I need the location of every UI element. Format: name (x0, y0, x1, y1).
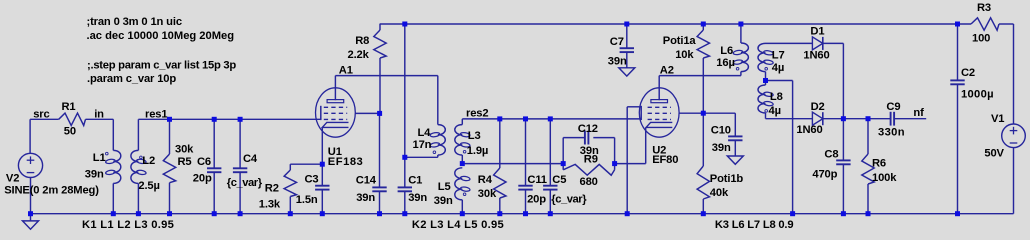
node junction B+ / C7 (624, 22, 629, 27)
wire C11 bottom lead (525, 190, 527, 214)
wire L8 bottom to D2 (765, 113, 767, 119)
wire in down to L1 (112, 119, 114, 150)
wire D1 cathode to corner (823, 42, 844, 44)
svg-text:res1: res1 (145, 109, 167, 121)
wire C4 top lead (239, 119, 241, 168)
node junction res1 C6 (212, 117, 217, 122)
wire V2 ground stub (30, 214, 32, 221)
wire C3 bottom lead (321, 190, 323, 214)
svg-text:R9: R9 (584, 154, 598, 166)
wire U1 g1-g3 bracket (320, 106, 322, 120)
wire C12R9 right vertical (614, 138, 616, 170)
wire C11 top lead (525, 119, 527, 186)
svg-text:Poti1a: Poti1a (663, 35, 697, 47)
wire C7 top lead (626, 24, 628, 48)
svg-text:C1: C1 (408, 174, 422, 186)
svg-text:16µ: 16µ (716, 57, 734, 69)
node bus junction Poti1b (701, 211, 706, 216)
svg-text:L1: L1 (93, 152, 106, 164)
node bus junction C5 (548, 211, 553, 216)
svg-text:L3: L3 (468, 130, 481, 142)
node bus junction C4 (238, 211, 243, 216)
svg-text:C2: C2 (961, 67, 975, 79)
svg-text:A1: A1 (339, 64, 353, 76)
node junction res1 R5 (167, 117, 172, 122)
wire R2 bottom lead (289, 197, 291, 214)
wire R4 top lead (499, 119, 501, 168)
node junction res2 R4 (497, 116, 502, 121)
wire L1 bottom lead (112, 183, 114, 213)
svg-text:nf: nf (913, 107, 924, 119)
resistor R9 (563, 164, 614, 175)
svg-text:L5: L5 (438, 181, 451, 193)
wire R6 bottom lead (867, 184, 869, 214)
inductor L6 (741, 43, 749, 72)
svg-text:C8: C8 (824, 149, 838, 161)
svg-text:.ac dec 10000 10Meg 20Meg: .ac dec 10000 10Meg 20Meg (87, 30, 235, 42)
svg-text:C9: C9 (886, 101, 900, 113)
node junction detector R6 (866, 116, 871, 121)
svg-text:330n: 330n (878, 126, 905, 138)
wire U2 g1-g3 bracket (640, 106, 642, 120)
svg-text:20p: 20p (527, 194, 546, 206)
wire L3 bottom lead (461, 155, 463, 164)
wire A2 plate net (659, 75, 741, 77)
svg-text:C7: C7 (610, 36, 624, 48)
capacitor C11 (518, 185, 532, 187)
wire R5 bottom lead (169, 183, 171, 214)
wire Poti1b bottom lead (702, 199, 704, 214)
wire L7 bottom to tap (765, 72, 767, 81)
resistor Poti1b (697, 166, 709, 199)
svg-text:2.5µ: 2.5µ (138, 180, 159, 192)
wire Poti1a bottom lead (702, 58, 704, 113)
node bus junction C14 (377, 211, 382, 216)
wire C4 bottom lead (239, 172, 241, 214)
capacitor C9 (890, 112, 892, 126)
svg-text:1N60: 1N60 (796, 124, 822, 136)
wire C12R9 left vertical (562, 138, 564, 170)
wire C12 top branch right (593, 137, 614, 139)
wire A1 down to L4 (437, 76, 439, 125)
svg-text:R5: R5 (178, 156, 192, 168)
node bus junction R6 (866, 211, 871, 216)
wire C10 top lead (734, 113, 736, 136)
node junction B+ / C2 (955, 22, 960, 27)
svg-text:10k: 10k (675, 49, 694, 61)
svg-text:Poti1b: Poti1b (710, 173, 744, 185)
svg-text:R2: R2 (265, 182, 279, 194)
resistor Poti1a (697, 30, 709, 58)
svg-text:100k: 100k (872, 172, 897, 184)
node junction L3 L5 cathode tap (460, 161, 465, 166)
svg-text:K1 L1 L2 L3 0.95: K1 L1 L2 L3 0.95 (82, 219, 174, 231)
svg-text:C4: C4 (243, 153, 258, 165)
node junction cathode network right (612, 161, 617, 166)
svg-text:C12: C12 (578, 123, 598, 135)
wire C5 top lead (549, 119, 551, 186)
wire top bus right of R3 (999, 23, 1014, 25)
node bus junction C8 (841, 211, 846, 216)
voltage source V1 (1002, 124, 1026, 148)
svg-text:R4: R4 (478, 174, 493, 186)
wire V2 bottom lead (30, 178, 32, 214)
ground at C7 (619, 68, 635, 76)
inductor L3 (455, 125, 463, 155)
svg-text:39n: 39n (434, 195, 453, 207)
svg-text:L4: L4 (418, 127, 432, 139)
svg-text:30k: 30k (478, 188, 497, 200)
svg-text:1000µ: 1000µ (961, 89, 994, 101)
wire L2 bottom lead (137, 183, 139, 213)
wire C8 top lead (842, 119, 844, 161)
capacitor C7 (620, 47, 634, 49)
svg-text:L6: L6 (720, 45, 733, 57)
wire U2 cathode riser (645, 128, 647, 164)
node bus junction U2 g1 ground (625, 211, 630, 216)
svg-text:17n: 17n (413, 139, 432, 151)
capacitor C10 (728, 135, 742, 137)
node bus junction L1 (111, 211, 116, 216)
wire A1 plate net (335, 75, 437, 77)
svg-text:A2: A2 (660, 64, 674, 76)
svg-text:L7: L7 (772, 49, 785, 61)
resistor R2 (284, 170, 296, 197)
svg-text:40k: 40k (710, 187, 729, 199)
svg-text:R8: R8 (355, 35, 369, 47)
node junction L7 L8 tap (763, 78, 768, 83)
svg-text:in: in (94, 108, 104, 120)
wire C7 ground stub (626, 52, 628, 68)
resistor R8 (374, 30, 386, 58)
svg-text:4µ: 4µ (769, 105, 781, 117)
wire U2 g2 to divider node (679, 112, 703, 114)
node junction cathode network left (561, 161, 566, 166)
resistor R1 (59, 113, 86, 125)
diode D1 (812, 37, 822, 50)
wire C6 top lead (213, 119, 215, 168)
svg-text:C10: C10 (711, 125, 731, 137)
inductor L8 (758, 85, 766, 113)
node junction B+ / Poti1a (701, 22, 706, 27)
capacitor C1 (398, 186, 412, 188)
wire R2 top lead (289, 164, 291, 170)
wire B+ down to L4 tap (404, 24, 406, 187)
ground at V2 (23, 221, 39, 229)
inductor L2 (131, 150, 139, 183)
svg-text:2.2k: 2.2k (348, 49, 370, 61)
node junction res2 C5 (548, 116, 553, 121)
svg-text:{c_var}: {c_var} (551, 193, 587, 205)
wire C2 bottom lead (957, 84, 959, 213)
svg-text:D1: D1 (810, 26, 824, 38)
svg-text:R1: R1 (62, 101, 76, 113)
svg-text:1.5n: 1.5n (296, 194, 318, 206)
svg-text:;tran 0 3m 0 1n uic: ;tran 0 3m 0 1n uic (87, 16, 182, 28)
svg-text:K3 L6 L7 L8 0.9: K3 L6 L7 L8 0.9 (715, 219, 793, 231)
svg-text:L8: L8 (770, 91, 783, 103)
svg-text:C3: C3 (305, 173, 319, 185)
svg-text:39n: 39n (712, 142, 731, 154)
wire V2 top lead (29, 119, 31, 153)
inductor L7 (758, 43, 766, 71)
resistor R5 (163, 154, 175, 183)
node bus junction centre tap (790, 211, 795, 216)
node junction U1 g2 R8 C14 (377, 111, 382, 116)
wire detector node to R6 node (843, 118, 868, 120)
wire src node (30, 118, 59, 120)
capacitor C2 (950, 79, 964, 81)
svg-text:L2: L2 (142, 155, 155, 167)
node bus junction L2 (136, 211, 141, 216)
svg-text:39n: 39n (608, 56, 627, 68)
wire D2 cathode to detector node (823, 118, 844, 120)
inductor L1 (113, 150, 121, 183)
wire C2 top lead (957, 24, 959, 80)
svg-text:39n: 39n (85, 168, 104, 180)
wire B+ down to V1 (1013, 24, 1015, 124)
wire C9 to nf (895, 118, 926, 120)
node bus junction C6 (212, 211, 217, 216)
svg-text:C14: C14 (356, 174, 377, 186)
wire L6 top lead (740, 24, 742, 43)
inductor L4 (438, 125, 446, 155)
wire top B+ bus (380, 23, 971, 25)
wire L8 top lead (765, 81, 767, 86)
wire g2 node down to C14 (379, 113, 381, 187)
wire C5 bottom lead (549, 190, 551, 214)
wire L8 to D2 anode (766, 118, 813, 120)
wire ground bus (31, 213, 1014, 215)
resistor R6 (862, 154, 874, 184)
capacitor C12 (584, 131, 586, 145)
svg-text:680: 680 (580, 176, 598, 188)
svg-text:4µ: 4µ (772, 62, 784, 74)
wire R9 network to cathode riser (615, 163, 646, 165)
node junction U2 g2 divider (701, 111, 706, 116)
wire R8 bottom lead to U1 g2 node (379, 58, 381, 113)
wire R6 node to C9 (868, 118, 891, 120)
wire g2 node to C10 (703, 112, 735, 114)
node junction res1 C4 (238, 117, 243, 122)
node bus junction C2 (955, 211, 960, 216)
node bus junction C1 (402, 211, 407, 216)
wire C6 bottom lead (213, 172, 215, 214)
svg-text:{c_var}: {c_var} (227, 177, 263, 189)
wire L7 top lead to D1 (766, 42, 813, 44)
wire C10 ground stub (734, 140, 736, 156)
capacitor C14 (372, 186, 386, 188)
wire Poti1b top lead (702, 113, 704, 166)
inductor L5 (455, 168, 463, 200)
wire R6 top lead (867, 119, 869, 154)
wire cathode node to R2 (290, 163, 322, 165)
wire R8 top lead (379, 24, 381, 30)
svg-text:C5: C5 (552, 174, 566, 186)
node junction L4 C1 tap (402, 155, 407, 160)
capacitor C3 (315, 185, 329, 187)
wire R5 top lead (169, 119, 171, 154)
node junction detector D1 D2 C8 (841, 116, 846, 121)
wire C12 top branch left (563, 137, 585, 139)
wire U1 cathode lead down (321, 128, 323, 165)
svg-text:100: 100 (972, 32, 990, 44)
capacitor C4 (233, 167, 247, 169)
svg-text:SINE(0 2m 28Meg): SINE(0 2m 28Meg) (4, 184, 99, 196)
node junction B+ / C1 (402, 22, 407, 27)
svg-text:39n: 39n (408, 192, 427, 204)
svg-text:V1: V1 (991, 113, 1004, 125)
node junction B+ / L6 (738, 22, 743, 27)
wire res2 rail (462, 118, 641, 120)
svg-text:1.9µ: 1.9µ (467, 145, 488, 157)
resistor R4 (494, 168, 506, 198)
resistor R3 (971, 18, 999, 30)
capacitor C6 (207, 167, 221, 169)
svg-text:1N60: 1N60 (803, 50, 829, 62)
node bus junction R5 (167, 211, 172, 216)
voltage source V2 (18, 153, 42, 177)
wire tap to D2 feed corner (766, 80, 793, 82)
svg-text:30k: 30k (175, 143, 194, 155)
wire Poti1a top lead (702, 24, 704, 30)
diode D2 (812, 112, 822, 125)
svg-text:K2 L3 L4 L5 0.95: K2 L3 L4 L5 0.95 (412, 219, 504, 231)
wire C1 bottom lead (404, 191, 406, 213)
svg-text:39n: 39n (356, 192, 375, 204)
svg-text:470p: 470p (812, 168, 837, 180)
wire U1 g2 to R8 node (355, 112, 379, 114)
node bus junction L5 (460, 211, 465, 216)
capacitor C8 (836, 159, 850, 161)
svg-text:res2: res2 (466, 107, 488, 119)
svg-text:EF80: EF80 (652, 154, 678, 166)
wire R4 bottom lead (499, 198, 501, 214)
svg-text:20p: 20p (193, 173, 212, 185)
ground at C10 (727, 156, 743, 164)
node bus junction C11 (523, 211, 528, 216)
node bus junction V2 (28, 211, 33, 216)
wire U2 g1 to ground riser (627, 106, 641, 108)
wire L4 bottom lead (437, 155, 439, 157)
svg-text:C11: C11 (527, 174, 546, 186)
svg-text:EF183: EF183 (328, 156, 363, 168)
node junction U1 cathode (320, 162, 325, 167)
wire res1 rail (138, 118, 320, 120)
svg-text:;.step param c_var list 15p 3p: ;.step param c_var list 15p 3p (87, 59, 236, 71)
svg-text:1.3k: 1.3k (259, 199, 281, 211)
wire U2 g1 ground vertical (626, 107, 628, 214)
node bus junction R2 (288, 211, 293, 216)
svg-text:50: 50 (64, 125, 76, 137)
svg-text:src: src (33, 108, 49, 120)
wire U2 plate lead (658, 76, 660, 101)
svg-text:V2: V2 (6, 173, 19, 185)
node bus junction C3 (320, 211, 325, 216)
wire centre tap ground drop (792, 81, 794, 214)
wire U1 plate lead (334, 76, 336, 101)
svg-text:50V: 50V (984, 147, 1004, 159)
wire V1 bottom lead (1013, 148, 1015, 214)
wire L2 top lead (137, 119, 139, 150)
wire A2 up to L6 (740, 72, 742, 76)
op-amp U2 pentode EF80 (639, 88, 679, 137)
capacitor C5 (543, 185, 557, 187)
node bus junction R4 (497, 211, 502, 216)
wire C14 bottom lead (379, 191, 381, 213)
svg-text:.param c_var 10p: .param c_var 10p (87, 73, 176, 85)
wire C3 top lead (321, 164, 323, 186)
wire in node (86, 118, 114, 120)
op-amp U1 pentode EF183 (316, 88, 356, 137)
wire L5 bottom lead (461, 200, 463, 214)
svg-text:R6: R6 (872, 158, 886, 170)
svg-text:C6: C6 (197, 156, 211, 168)
wire L3 bottom to R9 network (462, 163, 563, 165)
wire D1 output drop (842, 43, 844, 118)
node junction res2 C11 (523, 116, 528, 121)
wire L3 top lead (461, 119, 463, 125)
svg-text:D2: D2 (811, 101, 825, 113)
wire L4 bottom to C1 node (405, 156, 438, 158)
svg-text:R3: R3 (977, 2, 991, 14)
wire C8 bottom lead (842, 164, 844, 213)
